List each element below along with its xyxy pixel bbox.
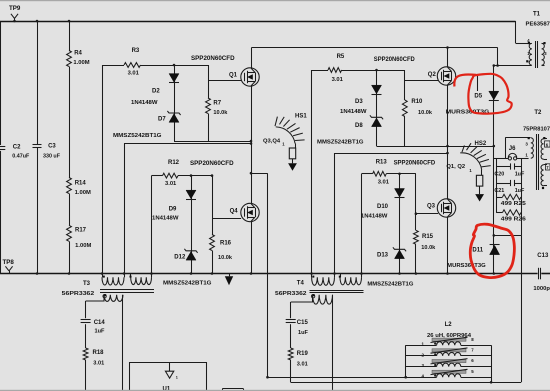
svg-text:MMSZ5242BT1G: MMSZ5242BT1G [163,281,212,287]
svg-text:3.01: 3.01 [128,71,140,77]
svg-text:Q4: Q4 [230,208,239,214]
svg-text:MMSZ5242BT1G: MMSZ5242BT1G [317,140,364,146]
svg-text:R12: R12 [168,160,180,166]
svg-text:TP8: TP8 [3,259,15,266]
svg-text:SPP20N60CFD: SPP20N60CFD [191,56,235,62]
svg-text:1N4148W: 1N4148W [340,109,367,115]
svg-text:1uF: 1uF [298,330,309,336]
svg-text:MMSZ5242BT1G: MMSZ5242BT1G [113,133,162,139]
svg-text:1uF: 1uF [515,188,525,194]
svg-text:HS1: HS1 [295,114,307,120]
svg-text:1.00M: 1.00M [75,243,91,249]
svg-text:3.01: 3.01 [378,179,390,185]
svg-text:75PR8107: 75PR8107 [523,126,550,132]
svg-text:C3: C3 [48,143,56,149]
svg-text:SPP20N60CFD: SPP20N60CFD [374,57,416,63]
svg-text:C20: C20 [494,171,504,177]
svg-text:1N4148W: 1N4148W [361,214,388,220]
svg-text:Q1: Q1 [229,72,238,78]
svg-text:Q1, Q2: Q1, Q2 [446,164,465,170]
svg-text:D2: D2 [152,89,160,95]
svg-text:R16: R16 [220,240,232,246]
svg-text:3.01: 3.01 [332,77,344,83]
svg-text:330 uF: 330 uF [43,154,61,160]
svg-text:10.0k: 10.0k [418,110,433,116]
svg-text:T2: T2 [534,110,542,116]
svg-text:MMSZ5242BT1G: MMSZ5242BT1G [367,281,413,287]
svg-text:D12: D12 [174,254,186,260]
svg-text:1uF: 1uF [515,171,525,177]
svg-text:C21: C21 [494,188,504,194]
svg-text:1N4148W: 1N4148W [152,216,179,222]
svg-text:10.0k: 10.0k [218,255,233,261]
svg-text:3.01: 3.01 [165,181,177,187]
svg-text:10.0k: 10.0k [213,110,228,116]
svg-text:1uF: 1uF [95,329,106,335]
svg-text:1: 1 [176,376,178,380]
svg-text:R7: R7 [213,100,221,106]
svg-text:R3: R3 [132,48,140,54]
svg-text:499 R26: 499 R26 [501,216,526,222]
svg-text:D10: D10 [377,204,389,210]
svg-text:3.01: 3.01 [297,362,308,368]
svg-text:R14: R14 [75,180,87,186]
svg-text:R4: R4 [74,50,82,56]
svg-text:Q3,Q4: Q3,Q4 [263,138,281,144]
svg-text:C13: C13 [537,253,549,259]
svg-text:T3: T3 [83,281,91,287]
svg-text:TP9: TP9 [9,5,21,12]
svg-text:499 R25: 499 R25 [501,201,526,207]
svg-text:T1: T1 [533,11,541,17]
svg-text:1.00M: 1.00M [75,190,91,196]
svg-text:R18: R18 [93,350,105,356]
svg-text:56PR3362: 56PR3362 [275,291,307,297]
svg-text:SPP20N60CFD: SPP20N60CFD [190,161,234,167]
svg-text:0.47uF: 0.47uF [12,153,30,159]
svg-text:C14: C14 [94,320,106,326]
svg-text:1000p: 1000p [533,286,550,292]
svg-text:3.01: 3.01 [93,360,104,366]
svg-text:D8: D8 [355,123,363,129]
svg-text:D3: D3 [355,99,363,105]
svg-text:J6: J6 [509,146,516,152]
svg-text:10.0k: 10.0k [421,245,436,251]
svg-text:26 uH, 60PR964: 26 uH, 60PR964 [427,333,472,339]
svg-text:D9: D9 [169,206,177,212]
svg-text:R10: R10 [411,99,423,105]
svg-text:1N4148W: 1N4148W [131,100,158,106]
svg-text:D7: D7 [158,116,166,122]
svg-text:T4: T4 [297,281,305,287]
svg-text:D5: D5 [474,94,482,100]
svg-text:PE63587: PE63587 [526,21,550,27]
svg-text:Q2: Q2 [428,72,437,78]
svg-text:R17: R17 [75,228,87,234]
svg-text:L2: L2 [445,322,453,328]
svg-text:C15: C15 [297,320,309,326]
svg-text:R19: R19 [297,351,309,357]
svg-text:D11: D11 [472,248,483,254]
svg-text:R15: R15 [422,234,434,240]
svg-text:D13: D13 [377,252,389,258]
svg-text:SPP20N60CFD: SPP20N60CFD [394,161,436,167]
svg-text:R5: R5 [337,54,345,60]
svg-text:R13: R13 [376,159,388,165]
svg-text:HS2: HS2 [475,141,487,147]
svg-text:1.00M: 1.00M [73,60,89,66]
svg-text:56PR3362: 56PR3362 [62,291,94,297]
svg-text:C2: C2 [13,145,21,151]
svg-text:MURS360T3G: MURS360T3G [447,263,486,269]
svg-text:Q3: Q3 [427,204,436,210]
